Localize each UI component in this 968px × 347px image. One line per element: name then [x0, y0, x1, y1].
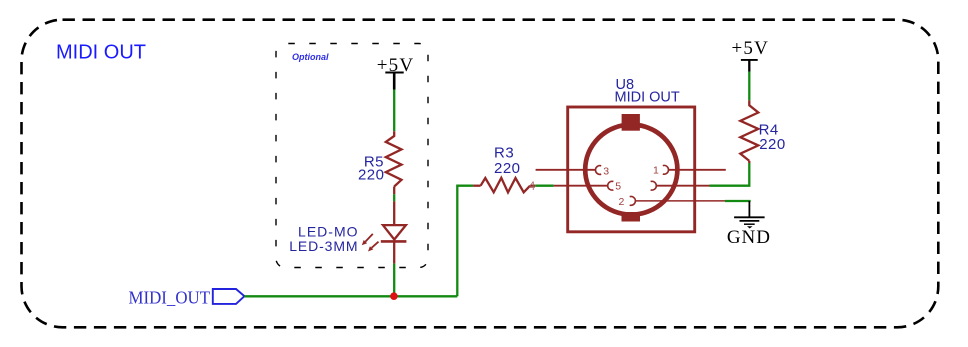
wire LED to node [393, 264, 395, 297]
svg-text:2: 2 [619, 196, 625, 208]
net flag MIDI_OUT [213, 289, 245, 304]
svg-text:LED-3MM: LED-3MM [289, 238, 358, 254]
pin 1 [653, 165, 726, 177]
svg-text:MIDI_OUT: MIDI_OUT [129, 288, 211, 308]
pin 4 [651, 181, 710, 190]
svg-text:LED-MO: LED-MO [298, 224, 358, 240]
wire pin 2 to GND [725, 201, 750, 202]
wire pin 4 to R4 [710, 163, 750, 186]
connector U8 body [568, 107, 695, 232]
wire R3 to pin 5 [535, 185, 553, 187]
svg-text:1: 1 [653, 165, 659, 177]
LED LED-MO [362, 201, 407, 263]
resistor R4 [740, 100, 758, 163]
svg-text:220: 220 [494, 160, 521, 177]
junction node [390, 292, 398, 300]
svg-text:4: 4 [529, 179, 536, 193]
optional region box [276, 44, 428, 268]
power +5V (optional branch) [377, 55, 415, 90]
svg-text:+5V: +5V [732, 38, 770, 59]
wire vertical to R3 [457, 186, 473, 297]
pin 3 [536, 165, 610, 177]
svg-text:Optional: Optional [292, 52, 329, 62]
ground GND [727, 201, 771, 248]
wire +5V to R5 [393, 90, 395, 132]
pin 5 [554, 180, 622, 192]
power +5V (R4) [732, 38, 770, 72]
resistor R3 [473, 178, 535, 193]
resistor R5 [386, 131, 402, 194]
svg-text:3: 3 [603, 165, 609, 177]
svg-text:220: 220 [358, 167, 385, 184]
svg-text:220: 220 [759, 136, 786, 153]
pin 2 [619, 196, 726, 208]
wire R5 to LED [393, 194, 395, 201]
wire +5V to R4 [748, 72, 750, 101]
svg-text:MIDI OUT: MIDI OUT [56, 42, 146, 64]
svg-text:GND: GND [727, 227, 771, 248]
svg-text:5: 5 [615, 180, 621, 192]
wire MIDI_OUT horizontal [244, 295, 457, 297]
svg-text:MIDI OUT: MIDI OUT [615, 89, 680, 105]
